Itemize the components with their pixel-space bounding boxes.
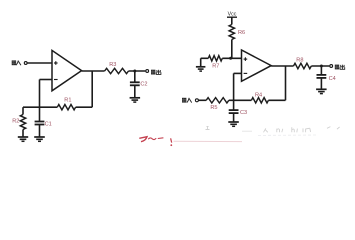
faint gray dotted remnant [258,134,318,136]
ground left of R7 [196,58,206,71]
resistor R1 [57,97,75,110]
svg-text:R6: R6 [238,30,245,36]
resistor R5 [206,98,229,111]
cropped text remnants (gray) [206,127,331,133]
watermark red stroke 3 [158,137,164,140]
ground under C1 [34,137,45,141]
op-amp U1 [52,50,82,90]
svg-text:R5: R5 [210,105,217,111]
watermark red stroke 1 [139,137,147,142]
wire: output feedback branch down [285,66,287,100]
wire: U2 inverting input to node A [234,73,242,100]
watermark red stroke 4 [170,138,172,146]
output terminal 输出 (left circuit) [146,70,161,75]
output terminal 输出 (right circuit) [330,65,345,70]
svg-text:R4: R4 [255,92,262,98]
svg-text:R1: R1 [64,97,71,103]
svg-text:C2: C2 [140,82,147,88]
wire: R8 to output terminal [311,65,329,67]
wire: R6 down to + node [231,40,233,59]
wire: U1 output [82,70,105,72]
capacitor C2 [130,71,148,97]
wire: R4 to feedback branch [268,99,285,101]
op-amp U2 [242,50,272,81]
faint pink underline remnant [174,140,243,142]
wire: R3 to output terminal [129,70,146,72]
wire: feedback bottom run [23,106,92,108]
wire: R5 to node A [229,99,252,101]
svg-text:R2: R2 [12,119,19,125]
resistor R2 [12,107,25,136]
input terminal 输入 (right circuit) [182,98,198,103]
svg-text:R8: R8 [296,57,303,63]
resistor R8 [294,57,312,68]
ground under R2 [18,137,28,141]
capacitor C4 [317,66,336,89]
input terminal 输入 (left circuit) [12,60,27,65]
svg-text:C4: C4 [329,76,336,82]
node: output junction (left) [133,70,136,73]
resistor R3 [105,62,129,74]
capacitor C1 [35,107,52,136]
ground under C2 [130,98,141,102]
capacitor C3 [229,100,247,121]
wire: U1 inverting input to feedback node [40,80,53,108]
resistor R6 [229,25,245,40]
node: + input junction [229,57,232,60]
resistor R4 [251,92,268,103]
svg-text:C3: C3 [240,110,247,116]
node: output junction (right) [320,65,323,68]
svg-text:R7: R7 [212,64,219,70]
ground under C4 [316,89,327,93]
svg-text:C1: C1 [45,122,52,128]
wire: output branch down to feedback [91,71,93,107]
svg-text:R3: R3 [109,62,116,68]
wire: U2 output [271,65,293,67]
wire: left input to op-amp + [27,62,52,64]
resistor R7 [201,56,242,70]
ground under C3 [228,122,239,126]
power rail Vcc [227,12,237,25]
wire: right input to R5 [199,99,207,101]
watermark red stroke 2 [148,138,156,140]
